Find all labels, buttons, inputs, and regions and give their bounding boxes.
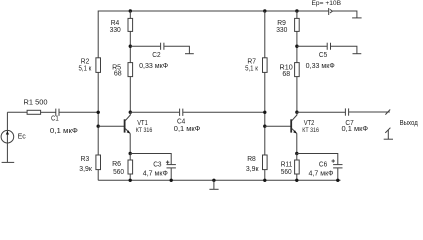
ground C5 bbox=[353, 53, 362, 55]
svg-text:4,7 мкФ: 4,7 мкФ bbox=[309, 171, 334, 178]
wire C2 branch bbox=[130, 45, 160, 47]
transistor VT2 bbox=[291, 112, 297, 153]
svg-text:330: 330 bbox=[276, 27, 287, 34]
ground Ec bbox=[2, 161, 15, 163]
svg-text:0,1 мкФ: 0,1 мкФ bbox=[174, 126, 201, 133]
resistor R7 bbox=[263, 58, 268, 73]
svg-text:КТ 316: КТ 316 bbox=[136, 127, 153, 134]
svg-text:5,1 к: 5,1 к bbox=[245, 65, 259, 72]
svg-text:68: 68 bbox=[282, 71, 290, 78]
node C3 bottom bbox=[170, 179, 173, 182]
svg-text:3,9к: 3,9к bbox=[246, 166, 260, 173]
wire bottom rail bbox=[98, 179, 340, 181]
node VT1 base junction bbox=[97, 125, 100, 128]
connector pin Ep bbox=[329, 8, 333, 15]
svg-text:560: 560 bbox=[113, 169, 124, 176]
svg-text:VT2: VT2 bbox=[304, 120, 315, 127]
svg-text:5,1 к: 5,1 к bbox=[79, 65, 93, 72]
resistor R6 bbox=[128, 160, 133, 174]
node C5 tap bbox=[295, 45, 298, 48]
wire R1 to C1 bbox=[41, 111, 56, 113]
resistor R1 bbox=[27, 110, 40, 114]
resistor R2 bbox=[96, 58, 101, 73]
wire C3 to rail bbox=[170, 168, 172, 180]
node R9 top bbox=[295, 9, 298, 12]
svg-text:Ep= +10В: Ep= +10В bbox=[312, 0, 342, 7]
capacitor C3 bbox=[167, 165, 176, 168]
svg-text:0,33 мкФ: 0,33 мкФ bbox=[306, 63, 335, 70]
wire collector to C7 bbox=[297, 111, 345, 113]
node VT2 emitter bbox=[295, 152, 298, 155]
wire R4 to C2 node bbox=[129, 31, 131, 62]
capacitor C5 bbox=[327, 43, 330, 50]
wire left divider bbox=[97, 72, 99, 155]
label C3 plus bbox=[166, 161, 169, 164]
wire emitter to C3 bbox=[130, 154, 171, 165]
wire Ec up bbox=[6, 112, 8, 130]
resistor R8 bbox=[263, 155, 268, 170]
transistor VT1 bbox=[125, 112, 131, 153]
svg-text:R4: R4 bbox=[111, 20, 120, 27]
node VT2 base junction bbox=[263, 125, 266, 128]
wire R9 to C5 node bbox=[296, 31, 298, 62]
wire R9 top lead bbox=[296, 11, 298, 18]
svg-text:R1 500: R1 500 bbox=[24, 100, 48, 107]
node C6 bottom bbox=[336, 179, 339, 182]
svg-text:330: 330 bbox=[110, 27, 121, 34]
wire top rail left segment bbox=[98, 11, 329, 58]
wire R10 to collector bbox=[296, 77, 298, 113]
wire emitter to C6 bbox=[297, 154, 338, 165]
resistor R4 bbox=[128, 18, 133, 31]
node ground tap bbox=[212, 179, 215, 182]
svg-text:C2: C2 bbox=[152, 52, 160, 59]
svg-text:C3: C3 bbox=[153, 161, 161, 168]
wire C4 to right divider bbox=[183, 111, 265, 113]
node VT2 collector bbox=[295, 111, 298, 114]
resistor R5 bbox=[128, 63, 133, 77]
node R4 top bbox=[129, 9, 132, 12]
node C2 tap bbox=[129, 45, 132, 48]
ground top right bbox=[352, 17, 362, 19]
node R6 bottom bbox=[129, 179, 132, 182]
source Ec bbox=[1, 130, 14, 143]
node C4 junction bbox=[263, 111, 266, 114]
node VT1 collector bbox=[129, 111, 132, 114]
svg-text:R8: R8 bbox=[247, 156, 256, 163]
svg-text:C1: C1 bbox=[51, 116, 59, 123]
capacitor C6 bbox=[333, 165, 342, 168]
wire VT1 base bbox=[98, 125, 124, 127]
label C6 plus bbox=[332, 159, 335, 162]
wire collector to C4 bbox=[130, 111, 179, 113]
svg-text:VT1: VT1 bbox=[137, 120, 148, 127]
svg-text:R3: R3 bbox=[81, 156, 90, 163]
wire C5 to ground bbox=[331, 46, 357, 54]
terminal output ground bbox=[384, 128, 393, 140]
svg-text:C4: C4 bbox=[177, 118, 185, 125]
svg-text:560: 560 bbox=[281, 169, 292, 176]
svg-text:C6: C6 bbox=[319, 161, 327, 168]
node C1 junction bbox=[97, 111, 100, 114]
wire R6 to rail bbox=[129, 174, 131, 180]
wire R5 to collector bbox=[129, 77, 131, 113]
wire right divider bbox=[264, 72, 266, 155]
capacitor C7 bbox=[345, 108, 348, 115]
node VT1 emitter bbox=[129, 152, 132, 155]
svg-text:0,33 мкФ: 0,33 мкФ bbox=[139, 63, 168, 70]
svg-text:4,7 мкФ: 4,7 мкФ bbox=[143, 171, 168, 178]
svg-text:Выход: Выход bbox=[400, 120, 418, 127]
svg-text:C5: C5 bbox=[319, 52, 327, 59]
wire Ec down bbox=[6, 143, 8, 162]
wire C6 to rail bbox=[337, 168, 339, 180]
wire R3 to rail bbox=[97, 170, 99, 181]
svg-text:R2: R2 bbox=[81, 58, 90, 65]
resistor R3 bbox=[96, 155, 101, 170]
ground bottom bbox=[209, 180, 218, 189]
wire C7 to output bbox=[349, 111, 390, 113]
resistor R11 bbox=[295, 160, 300, 174]
svg-text:Ec: Ec bbox=[18, 133, 27, 140]
wire top rail right segment bbox=[332, 11, 357, 18]
resistor R9 bbox=[295, 18, 300, 31]
svg-text:R9: R9 bbox=[277, 20, 286, 27]
capacitor C1 bbox=[56, 109, 59, 116]
svg-text:R11: R11 bbox=[281, 161, 293, 168]
terminal output slash bbox=[385, 110, 390, 115]
svg-text:КТ 316: КТ 316 bbox=[302, 127, 319, 134]
svg-text:0,1 мкФ: 0,1 мкФ bbox=[50, 128, 78, 135]
wire emitter to R11 bbox=[296, 154, 298, 161]
wire C2 to ground bbox=[164, 46, 189, 54]
svg-text:R6: R6 bbox=[112, 161, 121, 168]
svg-text:0,1 мкФ: 0,1 мкФ bbox=[342, 126, 369, 133]
svg-text:68: 68 bbox=[114, 71, 122, 78]
wire R8 to rail bbox=[264, 170, 266, 181]
svg-text:3,9к: 3,9к bbox=[79, 166, 93, 173]
capacitor C4 bbox=[180, 109, 183, 116]
wire Ec to R1 bbox=[7, 111, 27, 113]
ground C2 bbox=[185, 53, 194, 55]
svg-text:R7: R7 bbox=[247, 58, 256, 65]
wire C5 branch bbox=[297, 45, 327, 47]
wire R4 top lead bbox=[129, 11, 131, 18]
wire C1 to divider bbox=[59, 111, 98, 113]
node R8 bottom bbox=[263, 179, 266, 182]
wire R11 to rail bbox=[296, 174, 298, 180]
resistor R10 bbox=[295, 63, 300, 77]
wire emitter to R6 bbox=[129, 154, 131, 161]
wire VT2 base bbox=[265, 125, 291, 127]
node R7 top bbox=[263, 9, 266, 12]
node R11 bottom bbox=[295, 179, 298, 182]
wire right divider top bbox=[264, 11, 266, 58]
capacitor C2 bbox=[161, 43, 164, 50]
